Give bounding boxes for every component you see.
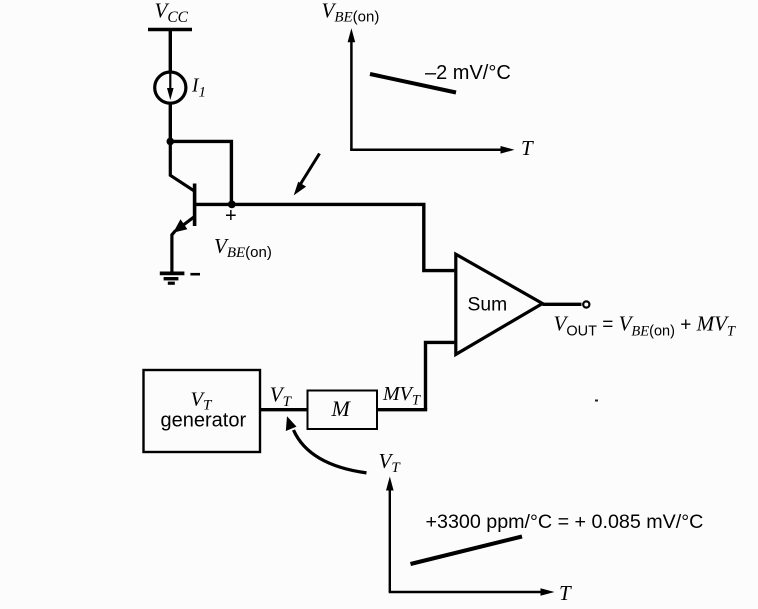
svg-text:T: T: [559, 581, 572, 605]
block M: [308, 391, 378, 430]
stray scan speck: [595, 400, 598, 402]
wire VBE to Sum top input: [232, 204, 454, 270]
wire MVT to Sum bottom input: [426, 342, 455, 409]
graph VBE(on) vs T : axis: [348, 28, 515, 153]
transistor Q1 (diode-connected NPN, facing left): [170, 141, 232, 232]
wire emitter to ground: [172, 231, 176, 274]
wire collector node to base (diode connection): [170, 141, 231, 204]
output terminal: [583, 301, 589, 307]
node: base junction dot: [228, 201, 236, 209]
label - (VBE polarity): [190, 273, 200, 276]
svg-text:T: T: [521, 136, 534, 160]
block VT generator: [144, 370, 261, 452]
svg-text:+: +: [225, 205, 237, 227]
graph VT slope line: [411, 537, 523, 565]
node: collector junction dot: [167, 138, 175, 146]
curved annotation arrow VT: [286, 416, 367, 473]
current source I1: [155, 72, 186, 103]
graph VT vs T : axis: [386, 477, 555, 596]
output wire: [543, 303, 582, 306]
wire VCC to current source: [169, 30, 172, 74]
svg-text:M: M: [331, 396, 352, 421]
wire VT: [260, 408, 308, 411]
node VCC: [148, 0, 192, 30]
ground: [160, 273, 185, 283]
wire MVT: [377, 408, 427, 411]
svg-text:–2 mV/°C: –2 mV/°C: [425, 62, 511, 84]
svg-text:+3300 ppm/°C = + 0.085 mV/°C: +3300 ppm/°C = + 0.085 mV/°C: [426, 511, 704, 533]
svg-text:generator: generator: [161, 410, 247, 432]
svg-text:Sum: Sum: [468, 295, 508, 316]
summing block Sum: [456, 254, 543, 354]
wire current source to collector node: [169, 103, 172, 141]
graph VBE slope line: [370, 74, 456, 93]
annotation arrow at VBE wire: [294, 154, 320, 196]
